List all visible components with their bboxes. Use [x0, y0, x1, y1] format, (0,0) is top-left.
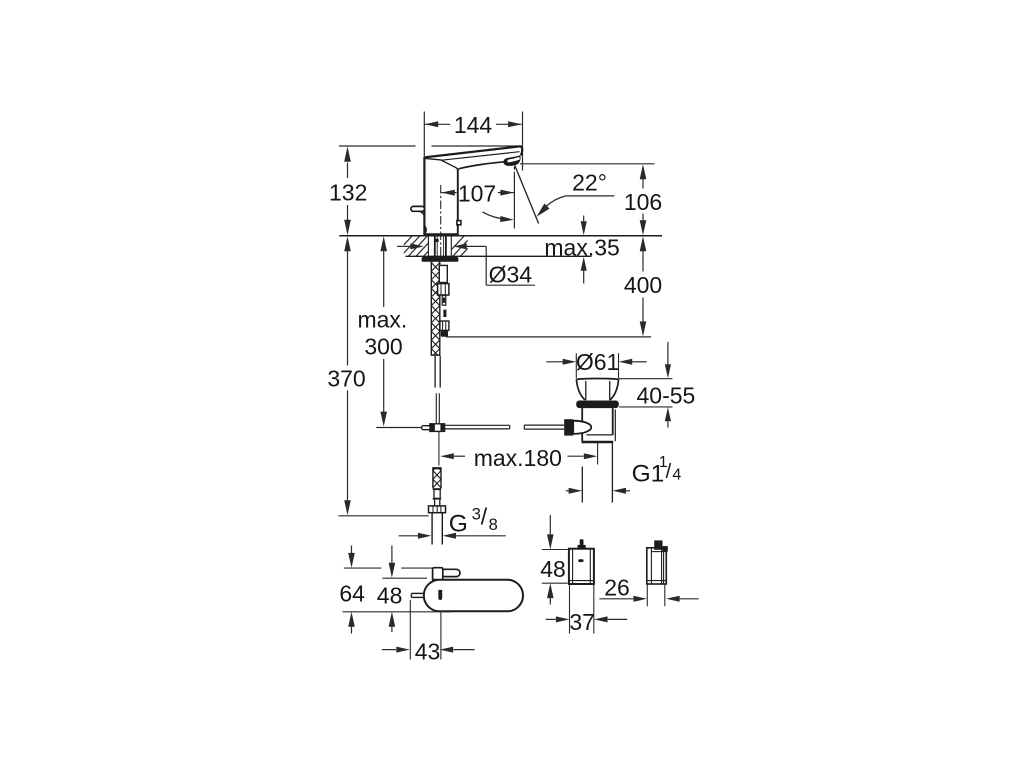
- flexible hose lower section: [433, 462, 441, 496]
- threaded shank through deck: [434, 236, 436, 256]
- svg-text:37: 37: [569, 609, 595, 635]
- svg-text:max.35: max.35: [544, 234, 619, 260]
- water stream line 22deg: [515, 166, 539, 224]
- mounting washer and nut (black): [422, 257, 459, 262]
- hose ferrule: [433, 488, 442, 490]
- power box vent mark: [578, 559, 583, 562]
- dimension 40-55: [619, 378, 673, 380]
- 64 top reference line: [344, 567, 382, 569]
- svg-text:300: 300: [364, 334, 402, 360]
- waste flange: [576, 378, 618, 381]
- 22deg underline and leader: [566, 195, 614, 197]
- sensor window: [457, 221, 461, 225]
- dimension 370: [344, 236, 351, 251]
- svg-text:144: 144: [454, 112, 493, 138]
- 48 top reference line: [382, 577, 427, 579]
- faucet base bottom edge: [424, 233, 457, 235]
- svg-text:/: /: [666, 461, 672, 483]
- svg-text:40-55: 40-55: [636, 382, 695, 408]
- 37 extension lines: [569, 584, 571, 633]
- flexible hose upper section: [431, 254, 440, 357]
- faucet body right edge: [457, 169, 459, 235]
- max180 right extension line: [597, 443, 599, 465]
- dimension diameter 34 leader: [397, 245, 411, 247]
- svg-text:400: 400: [624, 272, 662, 298]
- bottom reference line valve: [343, 611, 453, 613]
- rubber seal ring (black): [576, 401, 619, 409]
- angle arc with arrow: [483, 212, 509, 219]
- dimension 26: [599, 598, 633, 600]
- hole edge left: [427, 236, 429, 257]
- quick connector block: [439, 265, 447, 282]
- svg-text:Ø34: Ø34: [489, 261, 533, 287]
- dimension 48 valve: [391, 546, 393, 564]
- O61 extension lines: [575, 353, 577, 378]
- dimension 64: [351, 546, 353, 554]
- 400 end reference line: [446, 336, 651, 338]
- power box side view: [647, 548, 667, 584]
- outlet height reference line: [520, 163, 655, 165]
- pop-up rod segment 2: [524, 424, 564, 426]
- dimension 43: [382, 649, 396, 651]
- extension line 144 right: [522, 112, 524, 171]
- dimension max.300: [380, 236, 387, 251]
- dimension 37: [546, 618, 556, 620]
- rod ball joint elbow: [564, 419, 573, 435]
- dimension 144: [425, 123, 451, 125]
- svg-text:max.: max.: [357, 307, 407, 333]
- waste body: [581, 408, 583, 441]
- dimension 107: [441, 192, 456, 194]
- dimension 132: [347, 163, 349, 179]
- extension line 144 left: [423, 112, 425, 157]
- svg-text:48: 48: [377, 583, 403, 609]
- faucet spout underside: [458, 162, 505, 169]
- dimension diameter 61: [546, 361, 563, 363]
- deck top line: [339, 235, 662, 237]
- dimension 106: [640, 164, 647, 179]
- waste tailpipe: [581, 467, 583, 503]
- power box plug top: [580, 539, 584, 545]
- valve body (stadium shape): [424, 580, 523, 612]
- side box extension lines: [646, 584, 648, 606]
- svg-text:4: 4: [672, 467, 681, 484]
- svg-text:43: 43: [415, 639, 441, 665]
- G3/8 nut: [429, 506, 446, 513]
- svg-text:48: 48: [540, 556, 566, 582]
- svg-text:8: 8: [489, 516, 498, 534]
- deck bottom line / max.35 underline: [406, 255, 592, 257]
- dimension 400: [640, 236, 647, 251]
- svg-text:370: 370: [327, 365, 365, 391]
- 370 end reference line: [338, 515, 428, 517]
- faucet spout body: [424, 146, 522, 235]
- max.300 end reference line: [376, 427, 422, 429]
- svg-text:132: 132: [329, 179, 367, 205]
- power box front view: [569, 549, 594, 584]
- lever pivot dot: [424, 225, 426, 234]
- valve lever: [441, 569, 460, 576]
- shank gasket dark detail: [435, 239, 439, 242]
- top reference line: [339, 145, 416, 147]
- lift rod (thin): [435, 393, 437, 424]
- valve inlet stub: [411, 592, 423, 594]
- svg-text:22°: 22°: [572, 169, 607, 195]
- hole edge right: [450, 236, 452, 257]
- svg-text:26: 26: [604, 574, 630, 600]
- faucet spout inner highlight line: [442, 152, 520, 161]
- dimension 48 power box: [549, 515, 551, 536]
- valve cartridge slot (black): [438, 590, 442, 600]
- faucet centerline (107 extension): [440, 185, 442, 256]
- svg-text:107: 107: [458, 181, 496, 207]
- pop-up rod segment 1: [445, 424, 510, 426]
- cable plug connector: [443, 310, 446, 317]
- aerator at spout tip: [503, 155, 520, 166]
- temperature lever: [411, 206, 425, 211]
- rod tee joint: [430, 424, 445, 432]
- svg-text:106: 106: [624, 189, 662, 215]
- svg-text:/: /: [481, 504, 488, 530]
- hose end tube: [434, 356, 436, 388]
- side view plug (black): [654, 540, 662, 549]
- svg-text:3: 3: [472, 505, 481, 523]
- 48 reference lines: [542, 549, 568, 551]
- tee joint left stub: [422, 426, 431, 430]
- svg-text:max.180: max.180: [474, 445, 562, 471]
- supply pipe end: [431, 513, 433, 545]
- svg-text:Ø61: Ø61: [576, 349, 619, 375]
- line below tee / max180 extension: [438, 431, 440, 465]
- 43 extension lines: [409, 600, 411, 660]
- svg-text:G: G: [449, 510, 468, 537]
- vertical dash-dot reference at outlet: [513, 167, 515, 170]
- svg-text:64: 64: [339, 580, 365, 606]
- faucet shoulder crease: [425, 158, 458, 170]
- dimension G3/8 arrows: [399, 535, 418, 537]
- dimension G1 1/4 arrows: [566, 490, 569, 492]
- flange inner plug lines: [585, 381, 587, 400]
- dimension max.180: [440, 453, 454, 459]
- deck hatching left: [392, 235, 444, 258]
